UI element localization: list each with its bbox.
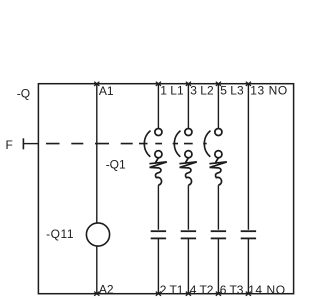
svg-text:13 NO: 13 NO xyxy=(250,84,287,98)
breaker -Q1 pole 1 trip element zigzag and coil curls xyxy=(149,158,166,186)
contactor -Q11 pole 3 main contact upper bar xyxy=(211,230,226,232)
svg-text:3 L2: 3 L2 xyxy=(190,84,214,98)
wire aux branch 13 top xyxy=(247,84,249,230)
svg-text:-Q11: -Q11 xyxy=(46,227,74,241)
wire coil branch A2 xyxy=(96,246,98,294)
coil -Q11 circle xyxy=(86,223,109,246)
breaker -Q1 pole 1 bottom contact circle xyxy=(155,151,162,158)
breaker -Q1 pole 1 top contact circle xyxy=(155,128,162,135)
wire pole 3 bottom xyxy=(217,238,219,293)
wire pole 1 top feed xyxy=(157,84,159,129)
breaker -Q1 pole 2 trip element zigzag and coil curls xyxy=(179,158,196,186)
wire coil branch A1 xyxy=(96,84,98,224)
svg-text:F: F xyxy=(6,138,13,152)
breaker -Q1 pole 3 top contact circle xyxy=(215,128,222,135)
actuator F tick xyxy=(22,138,24,149)
mechanical linkage dashed line xyxy=(46,143,207,145)
wire pole 3 middle xyxy=(217,185,219,229)
svg-text:A1: A1 xyxy=(99,84,114,98)
contactor -Q11 aux contact upper bar xyxy=(241,230,256,232)
contactor -Q11 pole 2 main contact lower bar xyxy=(181,237,196,239)
junction pole 1 bottom terminal xyxy=(156,292,161,296)
junction pole 2 bottom terminal xyxy=(186,292,191,296)
wire pole 3 top feed xyxy=(217,84,219,129)
breaker -Q1 pole 3 trip element zigzag and coil curls xyxy=(209,158,226,186)
wire pole 2 middle xyxy=(187,185,189,229)
svg-text:1 L1: 1 L1 xyxy=(160,84,184,98)
svg-text:4 T2: 4 T2 xyxy=(190,283,214,297)
junction pole 3 bottom terminal xyxy=(216,292,221,296)
actuator F link wire xyxy=(23,143,38,145)
contactor -Q11 pole 3 main contact lower bar xyxy=(211,237,226,239)
breaker -Q1 pole 3 bottom contact circle xyxy=(215,151,222,158)
breaker -Q1 pole 3 release arc xyxy=(204,131,210,157)
junction aux branch bottom terminal 14 xyxy=(246,292,251,296)
svg-text:-Q1: -Q1 xyxy=(106,158,126,172)
wire pole 2 bottom xyxy=(187,238,189,293)
svg-text:6 T3: 6 T3 xyxy=(220,283,244,297)
device outline box -Q xyxy=(38,84,293,294)
svg-text:5 L3: 5 L3 xyxy=(220,84,244,98)
wire pole 1 middle xyxy=(157,185,159,229)
contactor -Q11 pole 1 main contact lower bar xyxy=(151,237,166,239)
junction pole 2 top terminal xyxy=(186,82,191,86)
svg-text:14 NO: 14 NO xyxy=(248,283,285,297)
breaker -Q1 pole 2 release arc xyxy=(174,131,180,157)
contactor -Q11 pole 2 main contact upper bar xyxy=(181,230,196,232)
junction aux branch top terminal 13 xyxy=(246,82,251,86)
svg-text:A2: A2 xyxy=(99,283,114,297)
contactor -Q11 aux contact lower bar xyxy=(241,237,256,239)
junction coil branch bottom terminal A2 xyxy=(94,292,99,296)
breaker -Q1 pole 2 top contact circle xyxy=(185,128,192,135)
contactor -Q11 pole 1 main contact upper bar xyxy=(151,230,166,232)
svg-text:2 T1: 2 T1 xyxy=(160,283,184,297)
wire pole 1 bottom xyxy=(157,238,159,293)
breaker -Q1 pole 2 bottom contact circle xyxy=(185,151,192,158)
wire pole 2 top feed xyxy=(187,84,189,129)
junction pole 3 top terminal xyxy=(216,82,221,86)
junction coil branch top terminal A1 xyxy=(94,82,99,86)
wire aux branch 14 bottom xyxy=(247,238,249,293)
breaker -Q1 pole 1 release arc xyxy=(144,131,150,157)
svg-text:-Q: -Q xyxy=(17,87,30,101)
junction pole 1 top terminal xyxy=(156,82,161,86)
